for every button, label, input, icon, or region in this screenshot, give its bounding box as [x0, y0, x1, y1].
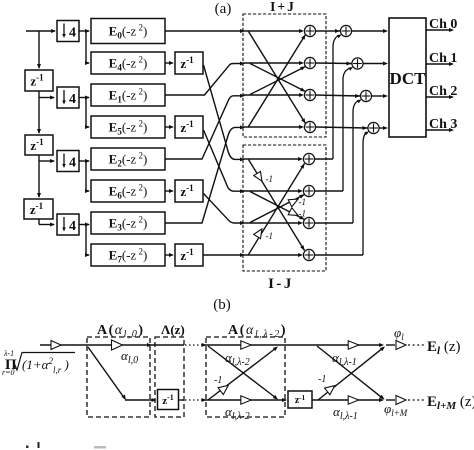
svg-text:αl,λ-2: αl,λ-2	[225, 404, 250, 422]
svg-text:Ch 0: Ch 0	[429, 17, 457, 32]
svg-text:-1: -1	[266, 231, 274, 241]
svg-text:(a): (a)	[215, 1, 232, 17]
svg-text:-1: -1	[318, 374, 326, 385]
svg-text:r=0: r=0	[2, 368, 15, 377]
svg-text:αl,λ-1: αl,λ-1	[333, 404, 358, 422]
svg-text:αl,λ-1: αl,λ-1	[332, 350, 357, 368]
svg-text:A(αl,0): A(αl,0)	[97, 323, 145, 340]
svg-text:4: 4	[69, 219, 76, 234]
svg-text:DCT: DCT	[390, 69, 427, 88]
svg-text:El (z): El (z)	[427, 339, 460, 357]
svg-text:(b): (b)	[213, 297, 231, 313]
svg-text:I-J: I-J	[268, 276, 294, 292]
svg-text:-1: -1	[266, 174, 274, 184]
svg-text:Ch 3: Ch 3	[429, 117, 457, 132]
svg-text:-1: -1	[299, 209, 307, 219]
svg-text:(1+α2l,r ): (1+α2l,r )	[22, 356, 69, 375]
svg-text:Ch 2: Ch 2	[429, 84, 457, 99]
svg-text:αl,λ-2: αl,λ-2	[225, 350, 250, 368]
svg-text:Λ(z): Λ(z)	[161, 322, 185, 337]
svg-text:A(αl,λ-2): A(αl,λ-2)	[228, 323, 287, 340]
svg-text:El+M (z): El+M (z)	[427, 394, 474, 412]
svg-text:-1: -1	[299, 197, 307, 207]
svg-text:4: 4	[69, 92, 76, 107]
svg-text:αl,0: αl,0	[121, 348, 138, 366]
svg-text:4: 4	[69, 26, 76, 41]
svg-text:φl: φl	[394, 325, 404, 342]
svg-text:4: 4	[69, 156, 76, 171]
svg-text:-1: -1	[214, 375, 222, 386]
svg-text:Ch 1: Ch 1	[429, 51, 457, 66]
svg-text:I+J: I+J	[270, 0, 296, 14]
